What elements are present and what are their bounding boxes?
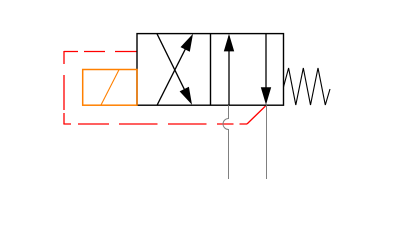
port line left (gray) with hop over red line [223, 105, 228, 179]
crossed flow path line A (up-right arrow) [157, 38, 191, 106]
port line right (gray) [266, 105, 268, 179]
straight flow path P-A (up arrow) [228, 36, 230, 105]
solenoid coil box [83, 70, 137, 106]
red dashed marking frame bottom edge [63, 123, 247, 125]
red pilot diagonal to valve port [247, 106, 266, 124]
red dashed marking frame top edge [64, 51, 137, 53]
arrowhead of line B [180, 87, 192, 105]
straight flow path B-T (down arrow) [265, 34, 267, 102]
solenoid diagonal stroke [101, 70, 119, 105]
arrowhead down [261, 87, 271, 105]
crossed flow path line B (down-right arrow) [157, 34, 190, 101]
arrowhead of line A [181, 34, 194, 52]
red dashed marking frame left edge [63, 51, 65, 124]
arrowhead up [224, 34, 234, 52]
valve body outline [137, 34, 284, 106]
return spring [284, 68, 331, 105]
valve position divider [210, 34, 212, 106]
